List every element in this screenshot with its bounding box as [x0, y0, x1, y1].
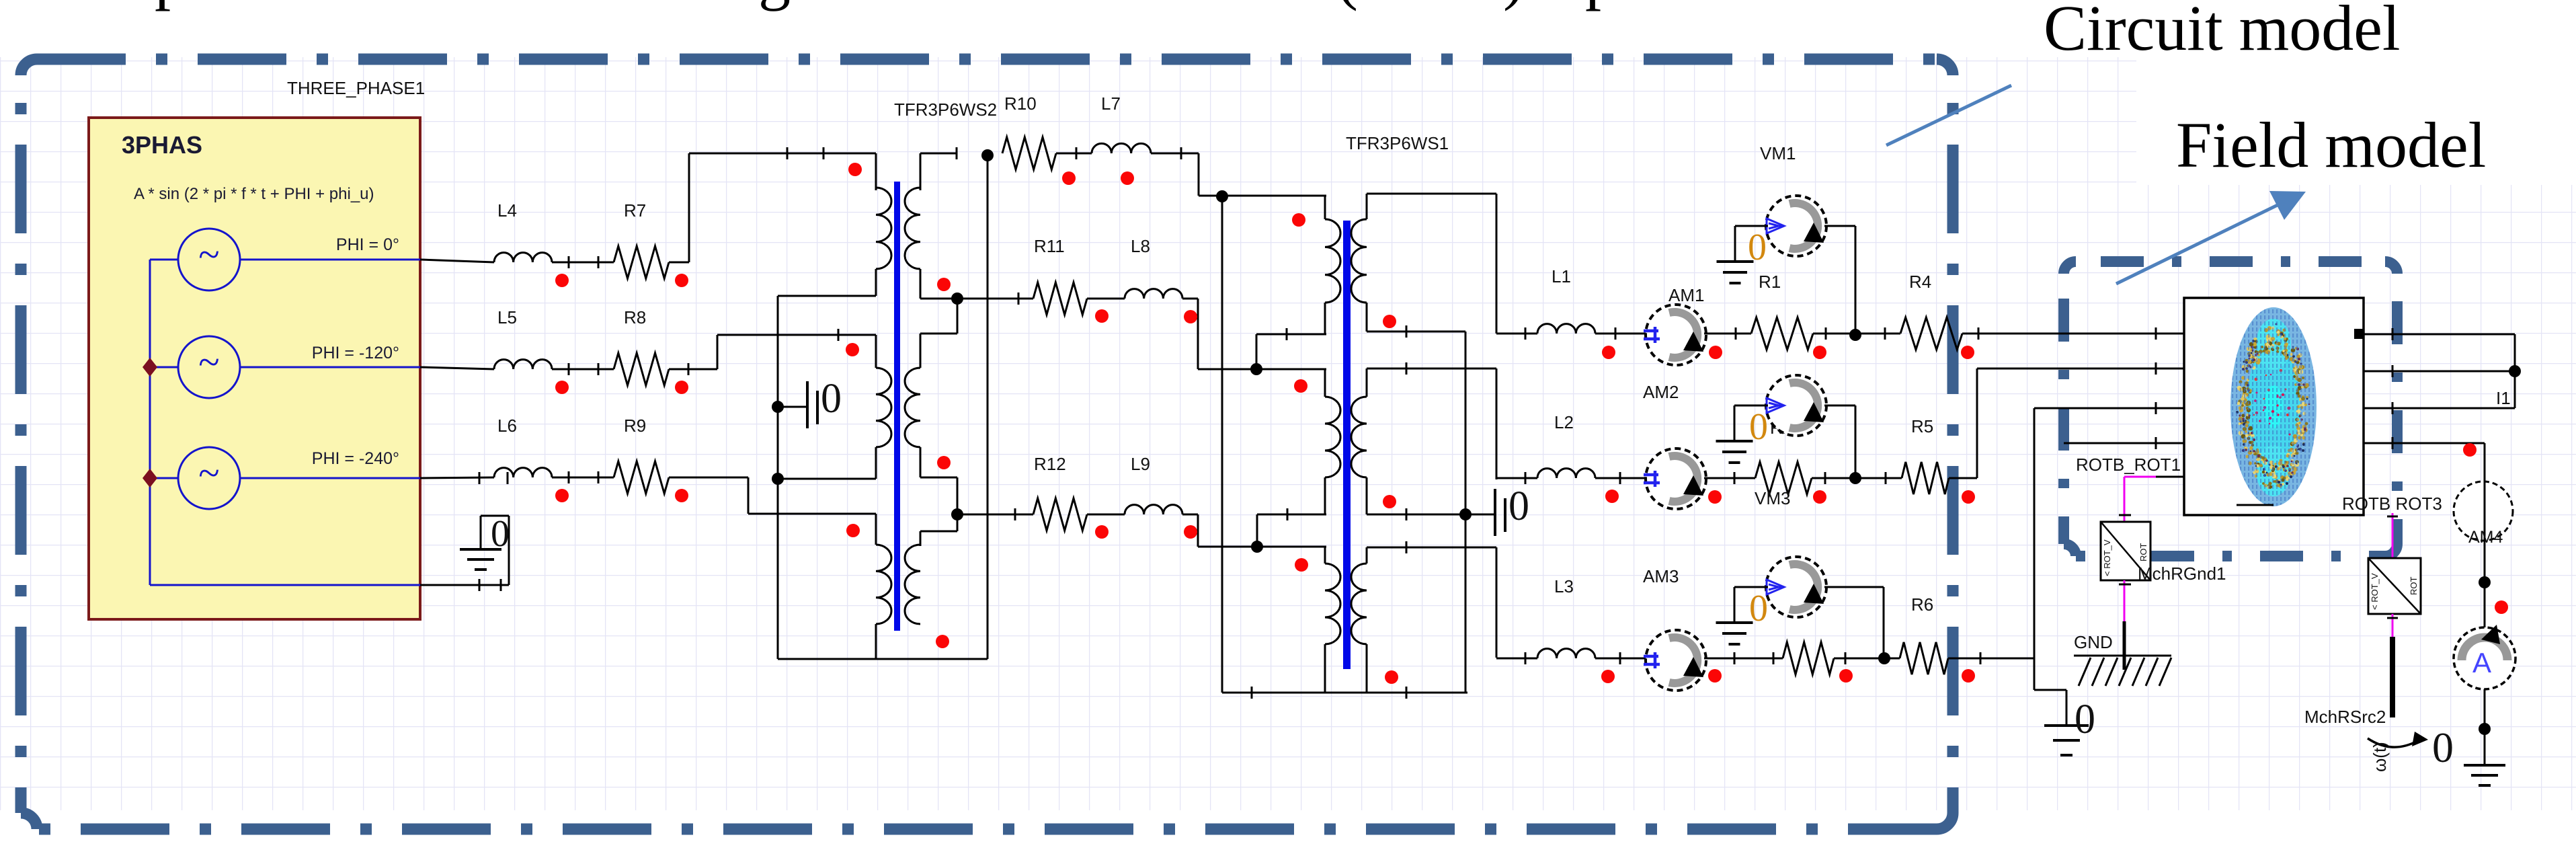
svg-text:L3: L3: [1554, 576, 1574, 596]
svg-text:AM4: AM4: [2468, 528, 2503, 547]
svg-text:g: g: [758, 0, 791, 11]
svg-text:R12: R12: [1034, 454, 1066, 474]
svg-text:(: (: [1336, 0, 1358, 11]
svg-text:R7: R7: [624, 200, 646, 221]
svg-text:ω(t): ω(t): [2370, 742, 2390, 772]
svg-text:L1: L1: [1552, 266, 1571, 286]
svg-text:ROTB ROT3: ROTB ROT3: [2342, 494, 2442, 514]
svg-text:MchRSrc2: MchRSrc2: [2304, 707, 2386, 727]
svg-text:L5: L5: [497, 307, 517, 327]
svg-text:~: ~: [198, 233, 219, 276]
svg-text:ROTB_ROT1: ROTB_ROT1: [2076, 455, 2181, 475]
svg-text:R8: R8: [624, 307, 646, 327]
svg-text:R4: R4: [1909, 272, 1931, 292]
svg-text:L7: L7: [1101, 93, 1121, 114]
svg-text:Field model: Field model: [2176, 109, 2486, 181]
svg-text:R9: R9: [624, 416, 646, 436]
svg-text:L8: L8: [1131, 236, 1150, 256]
svg-text:L6: L6: [497, 416, 517, 436]
svg-text:3PHAS: 3PHAS: [122, 131, 202, 159]
svg-text:0: 0: [2432, 724, 2454, 771]
svg-text:A * sin (2 * pi * f * t + PHI: A * sin (2 * pi * f * t + PHI + phi_u): [134, 185, 374, 203]
svg-text:0: 0: [491, 513, 510, 555]
svg-text:ROT: ROT: [2409, 577, 2419, 596]
svg-text:L9: L9: [1131, 454, 1150, 474]
svg-text:A: A: [2472, 647, 2491, 678]
svg-text:MchRGnd1: MchRGnd1: [2138, 563, 2226, 584]
svg-text:0: 0: [1508, 483, 1529, 529]
svg-text:PHI = -240°: PHI = -240°: [312, 449, 399, 468]
svg-text:L2: L2: [1554, 412, 1574, 432]
svg-text:R5: R5: [1911, 416, 1933, 436]
svg-text:R10: R10: [1004, 93, 1037, 114]
svg-text:TFR3P6WS1: TFR3P6WS1: [1346, 133, 1449, 153]
svg-text:0: 0: [2075, 697, 2095, 742]
svg-text:0: 0: [1749, 406, 1768, 448]
svg-text:0: 0: [1748, 227, 1767, 268]
svg-text:L4: L4: [497, 200, 517, 221]
svg-text:): ): [1503, 0, 1525, 11]
svg-text:0: 0: [1749, 588, 1768, 629]
svg-text:AM3: AM3: [1643, 566, 1679, 586]
svg-text:R1: R1: [1759, 272, 1781, 292]
svg-text:Circuit model: Circuit model: [2044, 0, 2401, 64]
svg-text:p: p: [155, 0, 187, 11]
svg-text:GND: GND: [2074, 632, 2113, 652]
svg-text:~: ~: [198, 451, 219, 495]
svg-text:TFR3P6WS2: TFR3P6WS2: [894, 100, 997, 120]
svg-text:0: 0: [821, 376, 842, 422]
svg-text:THREE_PHASE1: THREE_PHASE1: [287, 78, 425, 98]
svg-text:p: p: [1585, 0, 1617, 11]
svg-text:ROT: ROT: [2138, 543, 2148, 562]
svg-text:VM3: VM3: [1755, 488, 1790, 508]
svg-text:~: ~: [198, 340, 219, 384]
svg-text:R6: R6: [1911, 594, 1933, 615]
svg-text:AM1: AM1: [1668, 285, 1704, 305]
svg-text:AM2: AM2: [1643, 382, 1679, 402]
svg-text:PHI = 0°: PHI = 0°: [336, 235, 399, 254]
svg-text:R11: R11: [1034, 236, 1065, 256]
svg-text:VM1: VM1: [1760, 143, 1796, 163]
svg-text:< ROT_V: < ROT_V: [2370, 573, 2380, 610]
svg-text:PHI = -120°: PHI = -120°: [312, 344, 399, 362]
svg-text:< ROT_V: < ROT_V: [2102, 539, 2112, 576]
svg-text:I1: I1: [2496, 388, 2511, 408]
